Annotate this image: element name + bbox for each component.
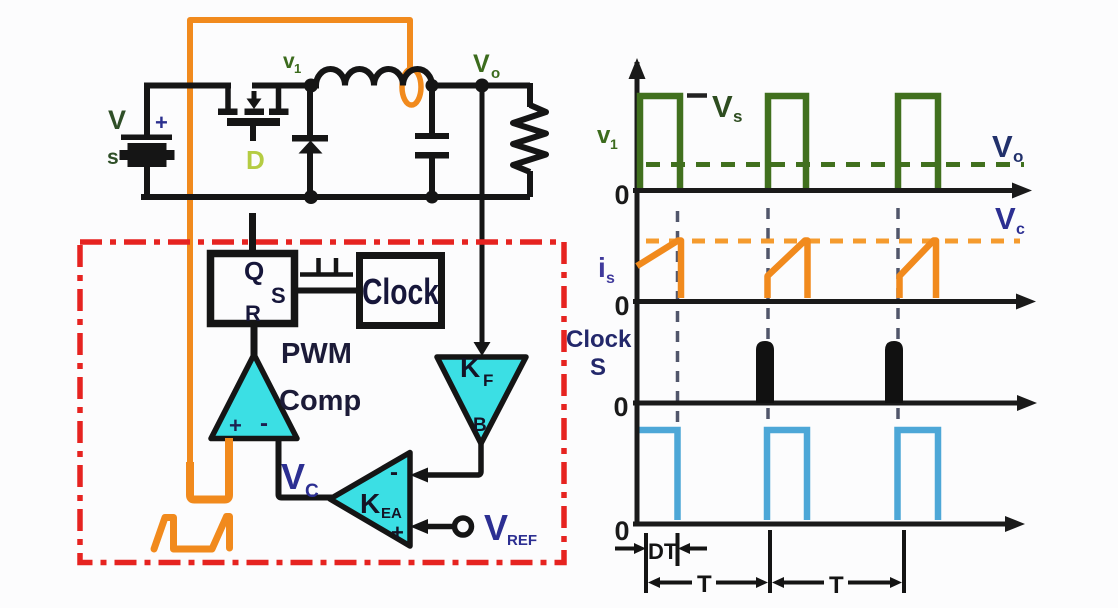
svg-text:F: F [483, 371, 493, 390]
grid dashed vertical t=T [766, 208, 770, 428]
clock block [360, 256, 442, 326]
svg-text:K: K [460, 352, 480, 383]
op-amp KF feedback gain [437, 357, 526, 444]
resistor load [513, 105, 546, 172]
v1 plot x-axis [633, 188, 1015, 193]
current-sense loop around inductor [402, 69, 421, 105]
clock pulse 2 [885, 341, 903, 403]
wire left branch / bottom rail / right branch [141, 83, 530, 197]
svg-text:K: K [360, 488, 380, 519]
wire KF output to KEA - input [428, 442, 481, 475]
junction diode-bottom [304, 190, 318, 204]
arrowhead into KEA + [410, 519, 428, 534]
clock plot x-axis [633, 401, 1020, 406]
svg-text:V: V [712, 89, 733, 124]
iS ramp 1 [637, 241, 681, 299]
T dimension arrow 2 [772, 577, 902, 588]
op-amp KEA error amplifier [330, 453, 410, 547]
arrowhead into KF [474, 342, 491, 356]
svg-text:REF: REF [507, 532, 537, 549]
svg-text:+: + [229, 413, 242, 438]
junction capacitor-bottom [426, 191, 439, 204]
VREF terminal circle [455, 518, 472, 535]
svg-text:-: - [260, 410, 268, 437]
iS plot x-axis [633, 299, 1019, 304]
grid dashed vertical t=DT [676, 211, 680, 428]
wire comparator output to latch R [251, 326, 258, 356]
dashed Vo level line [646, 162, 1024, 167]
svg-text:i: i [598, 252, 606, 283]
node after inductor [426, 79, 439, 92]
svg-text:1: 1 [610, 136, 618, 152]
svg-text:s: s [107, 146, 119, 169]
diode (freewheeling) [292, 86, 328, 198]
svg-text:c: c [1016, 221, 1025, 238]
svg-text:V: V [281, 456, 305, 497]
T dimension arrow 1 [648, 577, 768, 588]
v1 green pulse 2 [768, 96, 806, 188]
svg-text:V: V [473, 50, 490, 78]
svg-text:0: 0 [613, 392, 628, 422]
svg-text:T: T [829, 572, 844, 599]
svg-text:PWM: PWM [281, 338, 352, 370]
svg-text:-: - [390, 459, 398, 486]
v1 green pulse 3 [898, 96, 938, 188]
svg-text:+: + [391, 520, 404, 545]
wire comparator - input down to Vc node [279, 439, 333, 498]
shared vertical axis [635, 62, 640, 524]
dashed red control boundary box [80, 242, 564, 563]
svg-text:0: 0 [614, 516, 629, 546]
blue pulse 2 [767, 430, 807, 520]
blue pulse 3 [898, 430, 939, 520]
svg-text:V: V [108, 105, 126, 135]
tick short DT [676, 533, 680, 566]
transistor switch (MOSFET) [218, 84, 289, 141]
svg-text:1: 1 [294, 61, 301, 76]
tick long 2T [902, 530, 906, 593]
svg-text:+: + [155, 110, 168, 135]
svg-text:S: S [590, 354, 606, 381]
node V1 junction [304, 79, 318, 93]
svg-text:B: B [473, 415, 487, 436]
svg-text:T: T [697, 571, 712, 598]
blue plot x-axis [633, 522, 1008, 527]
DT dimension arrows [615, 543, 707, 554]
wire top rail [144, 83, 530, 89]
svg-text:v: v [597, 122, 611, 149]
wire VREF to KEA + input [428, 524, 453, 530]
svg-text:V: V [995, 201, 1016, 236]
inductor L [311, 69, 432, 85]
svg-text:DT: DT [648, 539, 678, 564]
blue pulse 1 [640, 430, 678, 520]
battery Vs [120, 135, 175, 168]
wire orange gate-drive loop (lower elbow into + input) [190, 438, 229, 500]
clock pulse 1 [756, 341, 774, 403]
svg-text:0: 0 [614, 291, 629, 321]
wire orange gate-drive loop (upper run) [190, 20, 410, 470]
svg-text:D: D [246, 145, 265, 175]
op-amp PWM comparator [211, 355, 297, 439]
svg-text:o: o [1013, 147, 1023, 166]
svg-text:Clock: Clock [362, 271, 440, 312]
arrowhead into KEA - [410, 468, 428, 483]
svg-text:o: o [491, 65, 500, 82]
svg-text:Comp: Comp [279, 385, 361, 417]
node Vo junction [475, 79, 489, 93]
capacitor C [415, 86, 449, 198]
tick long T [768, 530, 772, 593]
wire gate lead from latch Q up [249, 213, 256, 250]
dashed Vc level line [646, 239, 1020, 244]
svg-text:S: S [271, 283, 286, 308]
SR latch U1 [211, 254, 295, 324]
wire latch S to clock [296, 288, 358, 294]
svg-text:C: C [305, 481, 319, 502]
orange gate waveform glyph [154, 517, 230, 550]
svg-text:s: s [606, 270, 615, 287]
v1 green pulse 1 [640, 96, 680, 188]
svg-text:R: R [245, 301, 261, 326]
svg-text:Q: Q [244, 256, 264, 286]
svg-text:Clock: Clock [566, 326, 632, 353]
svg-text:s: s [733, 107, 742, 126]
clock pulse glyph [300, 258, 353, 275]
grid dashed vertical t=2T [896, 208, 900, 428]
iS ramp 3 [900, 241, 937, 299]
iS ramp 2 [768, 241, 808, 299]
tick long t0 [644, 533, 648, 593]
svg-text:V: V [992, 129, 1013, 164]
svg-text:V: V [484, 507, 508, 548]
Vs level tick [687, 93, 707, 98]
svg-text:0: 0 [614, 180, 629, 210]
wire Vo sense line down to KF [480, 92, 485, 344]
